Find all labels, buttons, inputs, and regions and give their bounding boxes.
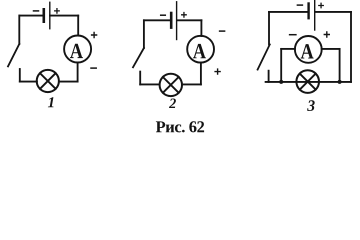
lamp EL2 cross	[163, 77, 179, 93]
battery GB1 minus plate	[42, 9, 45, 21]
label 2	[169, 99, 176, 109]
wire ammeter bottom vertical C1	[77, 63, 79, 82]
wire top-right segment C2	[177, 19, 201, 21]
battery GB1 plus label	[55, 9, 60, 14]
wire ammeter right stub C3	[322, 48, 340, 50]
battery GB2 plus plate	[176, 2, 178, 40]
battery GB3 minus plate	[307, 4, 309, 19]
lamp EL1 circle	[37, 70, 59, 92]
ammeter PA1 plus terminal label	[92, 33, 97, 38]
battery GB3 minus label	[297, 4, 302, 6]
wire top-left segment C2	[144, 19, 170, 21]
label 3	[307, 100, 315, 111]
battery GB3 plus plate	[314, 1, 316, 31]
wire right vertical C3	[350, 12, 352, 82]
lamp EL1 cross	[40, 73, 56, 89]
ammeter PA2 minus terminal label	[220, 30, 225, 32]
switch S2 lever C2	[133, 48, 144, 67]
switch S1 fixed contact C1	[19, 69, 21, 82]
caption Рис. 62	[156, 121, 204, 132]
wire top-left segment C1	[19, 15, 43, 17]
ammeter PA1 circle	[64, 36, 91, 63]
lamp EL3 circle	[296, 70, 319, 93]
lamp EL3 cross	[300, 74, 316, 90]
wire bottom-left segment C2	[140, 83, 159, 85]
ammeter PA2 plus terminal label	[215, 69, 220, 74]
node junction dot left C3	[279, 80, 283, 84]
lamp EL2 circle	[160, 74, 182, 96]
wire left branch vertical C3	[280, 49, 282, 82]
wire top-right segment C1	[50, 15, 78, 17]
switch S1 lever C1	[8, 44, 19, 66]
ammeter PA1 letter A	[70, 44, 83, 58]
battery GB3 plus label	[319, 3, 324, 8]
wire right vertical to ammeter C1	[77, 16, 79, 36]
wire ammeter left stub C3	[281, 48, 295, 50]
battery GB1 plus plate	[49, 2, 51, 28]
node junction dot right C3	[338, 80, 342, 84]
wire bottom-right segment C2	[182, 83, 201, 85]
battery GB2 minus label	[161, 14, 166, 16]
wire right branch vertical C3	[339, 49, 341, 82]
wire bottom-left segment C1	[20, 81, 37, 83]
switch S2 fixed contact C2	[139, 72, 141, 85]
wire top-left segment C3	[269, 11, 307, 13]
ammeter PA3 letter A	[301, 44, 314, 58]
switch S3 fixed contact C3	[268, 71, 270, 82]
ammeter PA3 plus terminal label	[324, 32, 329, 37]
battery GB1 minus label	[34, 10, 39, 12]
label 1	[48, 97, 54, 107]
ammeter PA2 circle	[187, 36, 214, 63]
wire right vertical to ammeter C2	[200, 20, 202, 36]
wire bottom-right segment C1	[59, 81, 78, 83]
ammeter PA2 letter A	[193, 44, 206, 58]
wire ammeter bottom vertical C2	[200, 63, 202, 85]
wire left vertical C3	[268, 12, 270, 45]
wire top-right segment C3	[316, 11, 352, 13]
wire bottom segment C3	[266, 81, 351, 83]
ammeter PA3 minus terminal label	[290, 34, 296, 36]
ammeter PA1 minus terminal label	[91, 67, 96, 69]
battery GB2 minus plate	[170, 13, 173, 28]
ammeter PA3 circle	[295, 36, 322, 63]
battery GB2 plus label	[182, 13, 187, 17]
wire left vertical C2	[143, 20, 145, 48]
switch S3 lever C3	[258, 44, 270, 69]
wire left vertical C1	[18, 16, 20, 44]
